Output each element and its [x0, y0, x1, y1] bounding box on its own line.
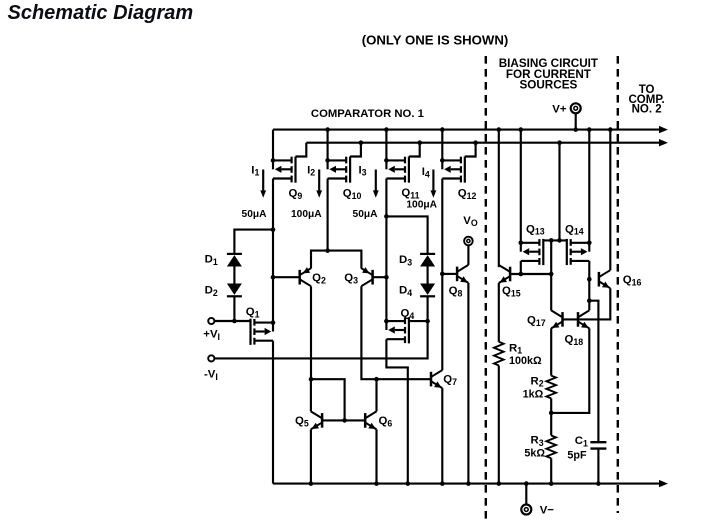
wire: Q17 emitter down to R2	[550, 328, 552, 375]
transistor Q1 (p-channel input MOSFET)	[246, 306, 273, 345]
transistor Q2 (pnp)	[300, 267, 326, 286]
wire: Q3 base node down to Q4 source	[385, 277, 387, 321]
wire: rail2 down to Q13/Q14 gates	[558, 143, 560, 241]
svg-text:+VI: +VI	[203, 329, 220, 342]
junction dot rail2 Q10 gate	[359, 140, 364, 145]
section label: COMPARATOR NO. 1	[311, 108, 424, 120]
terminal +VI	[203, 318, 220, 342]
terminal V+	[552, 103, 580, 115]
junction dot Q15 base line to Q17 collector	[549, 272, 554, 277]
junction dot rail1 Q16	[608, 127, 613, 132]
transistor Q8 (npn output)	[449, 265, 469, 299]
terminal -VI	[204, 355, 218, 382]
junction dot rail1 Q13	[519, 127, 524, 132]
junction dot Q4 gate tap	[425, 319, 430, 324]
junction dot R2/R3 node	[549, 411, 554, 416]
junction dot Q13 drain/Q15 base	[519, 272, 524, 277]
section label: TO COMP. NO. 2	[628, 84, 664, 115]
subtitle: (ONLY ONE IS SHOWN)	[362, 32, 509, 47]
wire: C1 tap down to Q18 collector	[588, 301, 590, 311]
section label: BIASING CIRCUIT FOR CURRENT SOURCES	[499, 57, 599, 92]
svg-text:COMPARATOR NO. 1: COMPARATOR NO. 1	[311, 108, 424, 120]
svg-text:50μA: 50μA	[353, 209, 379, 220]
junction dot Q8 base	[440, 272, 445, 277]
wire: D4 cathode down to Q4 gate tap	[427, 296, 429, 321]
wire: D1 anode to D2 anode	[233, 267, 235, 284]
junction dot C1 at rail	[596, 481, 601, 486]
junction dot Q4 source	[384, 319, 389, 324]
wire: rail1 down to Q15 collector	[498, 130, 500, 268]
svg-text:SOURCES: SOURCES	[519, 79, 577, 92]
wire: bottom rail to V- terminal	[525, 484, 527, 505]
current arrow I4	[422, 166, 437, 198]
wire: Q12 drain down to Q8 base	[441, 179, 443, 274]
junction dot D1 branch	[271, 227, 276, 232]
wire: Q5 base to Q6 base	[322, 419, 365, 421]
transistor Q15 (npn)	[499, 265, 521, 298]
junction dot C1 tap	[587, 298, 592, 303]
svg-text:V−: V−	[540, 504, 555, 516]
transistor Q10 (p-channel MOSFET current source)	[328, 157, 351, 183]
label 100uA under I4	[406, 200, 437, 211]
svg-text:100μA: 100μA	[406, 200, 437, 211]
wire: Q16 base node down to C1 tap	[588, 279, 590, 301]
wire: Q10 gate tap to rail 2	[350, 143, 361, 157]
junction dot Q3 base	[384, 275, 389, 280]
wire: R3 bottom to bottom rail	[550, 458, 552, 483]
wire: V+ rail (top rail 1) with arrow to comparator no. 2	[273, 126, 668, 133]
transistor Q17 (npn)	[527, 310, 563, 328]
wire: V+ terminal to rail 1	[575, 114, 577, 130]
junction dot rail2 Q12 gate	[473, 140, 478, 145]
junction dot Q8 emitter at rail	[466, 481, 471, 486]
wire: rail1 down to Q13 source	[520, 130, 522, 243]
wire: R2 bottom to node	[550, 398, 552, 413]
wire: Q15 base line	[510, 273, 551, 275]
wire: VO terminal down to Q8 collector	[467, 246, 469, 265]
wire: D3 anode to D4 anode	[427, 267, 429, 284]
wire: diff pair emitter tail	[311, 251, 361, 269]
current arrow I3	[359, 164, 379, 198]
wire: Q5 collector node to base tie	[311, 379, 345, 420]
title: Schematic Diagram	[8, 2, 194, 24]
terminal V-	[521, 504, 554, 516]
svg-text:NO. 2: NO. 2	[632, 103, 662, 115]
wire: D1 top to Q9 drain column	[234, 230, 273, 254]
junction dot Q16 base	[587, 277, 592, 282]
wire: Q3 base lead	[373, 276, 387, 278]
wire: Q13/Q14 gate line	[543, 239, 567, 241]
junction dot Q1 source	[271, 320, 276, 325]
junction dot Q10 source	[325, 158, 330, 163]
junction dot rail1 Q12 source	[440, 127, 445, 132]
wire: rail1 to Q12 source	[441, 130, 443, 161]
wire: D3 top to Q11 drain column	[386, 216, 427, 254]
wire: Q15 emitter down to R1	[498, 283, 500, 342]
wire: rail1 to Q11 source	[385, 130, 387, 161]
wire: Q4 drain jog down to bottom rail	[386, 339, 407, 483]
terminal VO	[463, 215, 478, 246]
transistor Q14 (p-channel MOSFET)	[565, 223, 589, 265]
svg-text:Schematic Diagram: Schematic Diagram	[8, 2, 194, 24]
wire: R1 bottom to bottom rail	[498, 366, 500, 484]
junction dot gate line at rail2 drop	[557, 238, 562, 243]
wire: +VI to Q1 gate	[214, 320, 250, 322]
transistor Q3 (pnp)	[344, 267, 372, 286]
wire: Q6 collector up to Q7 base line	[375, 379, 377, 411]
junction dot D2 to +VI line	[232, 319, 237, 324]
label Q11	[401, 187, 419, 200]
junction dot rail1 Q10 source	[325, 127, 330, 132]
wire: Q11 drain down to D3 junction	[385, 179, 387, 217]
junction dot Q2 base	[271, 275, 276, 280]
junction dot rail1 Q14	[587, 127, 592, 132]
capacitor C1 5pF	[567, 435, 606, 461]
wire: D3 junction down to Q3 base	[385, 216, 387, 277]
label 50uA under I1	[242, 209, 268, 220]
wire: gate bias rail (rail 2) with arrow to comparator no. 2	[306, 139, 668, 146]
transistor Q6 (npn mirror)	[365, 411, 392, 429]
svg-text:50μA: 50μA	[242, 209, 268, 220]
wire: Q6 emitter down to bottom rail	[375, 429, 377, 483]
wire: D2 cathode down to +VI line	[233, 296, 235, 321]
diode D3	[399, 254, 435, 268]
junction dot tail	[325, 248, 330, 253]
junction dot V- drop	[524, 481, 529, 486]
wire: Q2 base node down to Q1 source	[272, 277, 274, 322]
diode D2	[205, 284, 242, 298]
wire: rail1 to Q10 source	[327, 130, 329, 161]
junction dot rail1 Q11 source	[384, 127, 389, 132]
wire: Q4 gate tap	[409, 320, 428, 322]
wire: R3 top from node	[550, 413, 552, 436]
wire: -VI line to Q4 gate column	[214, 321, 428, 358]
label Q10	[343, 188, 362, 201]
svg-text:V+: V+	[552, 104, 567, 116]
label Q9	[289, 188, 303, 201]
wire: Q2 base lead	[273, 276, 300, 278]
transistor Q16 (npn)	[599, 270, 642, 288]
svg-text:100μA: 100μA	[291, 209, 322, 220]
wire: D1 branch junction down to Q2 base	[272, 230, 274, 278]
wire: rail1 down to Q14 source	[588, 130, 590, 243]
svg-text:5pF: 5pF	[567, 449, 587, 461]
wire: C1 bottom to bottom rail	[597, 449, 599, 484]
transistor Q13 (p-channel MOSFET)	[521, 223, 545, 265]
wire: Q5 emitter down to bottom rail	[310, 429, 312, 483]
wire: Q3 collector down and across to Q7 base	[361, 286, 431, 379]
transistor Q4 (p-channel MOSFET)	[386, 307, 414, 343]
junction dot Q5/Q6 base tie	[342, 418, 347, 423]
svg-text:(ONLY ONE IS SHOWN): (ONLY ONE IS SHOWN)	[362, 32, 509, 47]
junction dot Q6 collector	[374, 377, 379, 382]
diode D4	[399, 284, 435, 298]
wire: Q9 drain down to D1 junction	[272, 179, 274, 230]
wire: Q10 drain down to diff pair tail	[327, 179, 329, 251]
junction dot Q5 collector node	[309, 377, 314, 382]
current arrow I2	[307, 164, 322, 198]
label 50uA under I3	[353, 209, 379, 220]
junction dot Q5 emitter at rail	[309, 481, 314, 486]
wire: Q1 drain down to bottom rail	[272, 341, 274, 484]
wire: Q12 gate tap to rail 2	[465, 143, 476, 157]
wire: gate line down to Q15 base line	[550, 240, 552, 274]
wire: Q9 gate tap to rail 2	[296, 143, 307, 157]
wire: Q17 collector up to bias node	[550, 274, 552, 311]
wire: Q16 emitter down and across to Q17/Q18 bases	[563, 288, 611, 319]
svg-text:5kΩ: 5kΩ	[524, 448, 545, 460]
svg-text:100kΩ: 100kΩ	[509, 355, 542, 367]
wire: Q8 emitter down to bottom rail	[467, 283, 469, 484]
junction dot Q4 drain at bottom rail	[406, 481, 411, 486]
junction dot rail1 Q15	[497, 127, 502, 132]
resistor R2 1k	[523, 375, 556, 400]
junction dot R3 at rail	[549, 481, 554, 486]
junction dot Q6 emitter at rail	[374, 481, 379, 486]
boundary dashed line (right of biasing circuit)	[617, 56, 619, 513]
junction dot on rail1 at V+	[573, 127, 578, 132]
junction dot Q13 source	[519, 241, 524, 246]
diode D1	[205, 254, 242, 267]
junction dot Q7 emitter at rail	[440, 481, 445, 486]
transistor Q12 (p-channel MOSFET current source)	[442, 157, 465, 183]
resistor R3 5k	[524, 434, 556, 459]
junction dot R1 at rail	[497, 481, 502, 486]
junction dot Q11 source	[384, 158, 389, 163]
wire: Q5 collector up	[310, 379, 312, 411]
current arrow I1	[251, 164, 266, 198]
wire: C1 top lead	[589, 301, 598, 442]
junction dot Q9 source	[271, 158, 276, 163]
wire: Q2 collector down to Q5 collector node	[310, 286, 312, 379]
label 100uA under I2	[291, 209, 322, 220]
wire: Q8 base lead	[442, 273, 457, 275]
wire: Q11 gate tap to rail 2	[409, 143, 420, 157]
wire: Q14 drain down to Q16 base	[588, 261, 590, 279]
label Q12	[458, 188, 477, 201]
junction dot Q14 source	[587, 241, 592, 246]
transistor Q11 (p-channel MOSFET current source)	[386, 157, 409, 183]
wire: Q13 drain down to Q15 base line	[520, 261, 522, 274]
wire: rail1 down to Q16 collector	[609, 130, 611, 271]
svg-text:1kΩ: 1kΩ	[523, 389, 544, 401]
junction dot D3 branch	[384, 214, 389, 219]
junction dot rail2 Q11 gate	[417, 140, 422, 145]
junction dot gate line left	[549, 238, 554, 243]
transistor Q7 (npn)	[431, 370, 457, 388]
junction dot Q12 source	[440, 158, 445, 163]
wire: V- bottom rail with arrow to comparator no. 2	[273, 480, 668, 487]
wire: node line to Q18 emitter drop	[551, 328, 589, 413]
junction dot rail2 bias drop	[557, 140, 562, 145]
transistor Q9 (p-channel MOSFET current source)	[273, 157, 296, 183]
wire: Q7 emitter down to bottom rail	[441, 388, 443, 484]
resistor R1 100k	[494, 342, 542, 367]
boundary dashed line (left of biasing circuit)	[485, 56, 487, 519]
transistor Q18 (npn)	[565, 310, 590, 347]
transistor Q5 (npn mirror)	[295, 411, 322, 429]
wire: rail1 to Q9 source	[272, 130, 274, 161]
wire: Q8 base node down to Q7 collector	[441, 274, 443, 370]
